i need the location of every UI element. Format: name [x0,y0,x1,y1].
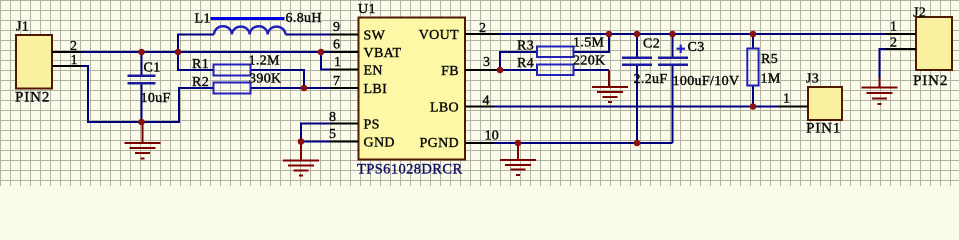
svg-text:4: 4 [483,94,490,109]
wire J1 pin1 down-around to R2 left lead [52,66,214,122]
junction node at GND/PS [298,138,305,145]
C3 plus sign [677,45,686,53]
ground G4 on PGND line [500,143,536,175]
wire C1 top lead [141,52,143,75]
capacitor C1 [128,76,156,84]
svg-text:1.5M: 1.5M [573,36,605,51]
wire R4 right lead [574,69,610,71]
op-amp U1 body [359,18,466,160]
svg-text:R2: R2 [192,75,209,90]
junction node at R3/VOUT [606,31,613,38]
svg-text:2.2uF: 2.2uF [634,72,668,87]
resistor R4 [537,65,574,76]
junction node at C2/VOUT [634,31,641,38]
junction node at EN branch [318,49,325,56]
J3 pin stub [778,106,808,108]
U1 pin stubs left [330,35,358,142]
svg-text:PIN1: PIN1 [806,121,841,137]
svg-text:10uF: 10uF [141,91,171,106]
svg-text:PIN2: PIN2 [15,90,50,106]
wire VBAT rail from J1 pin2 to U1 [52,51,358,53]
svg-text:LBI: LBI [364,82,388,97]
svg-text:VBAT: VBAT [364,46,402,61]
wire R1 left lead [178,52,214,70]
resistor R1 [214,65,251,76]
junction node at FB/R3 [497,67,504,74]
wire FB line to R4 [465,69,537,71]
inductor L1 value bar [211,17,285,20]
svg-text:8: 8 [329,110,336,125]
svg-text:J1: J1 [16,20,29,35]
connector J1 [16,35,52,89]
wire R5 top lead [752,34,754,49]
wire SW pin to L1 right lead [286,34,359,36]
wire LBI line from R2 to U1 [251,87,359,89]
junction node at C2/PGND [634,140,641,147]
wire GND pin [301,141,358,143]
wire C2 bottom lead down to PGND line [636,65,638,143]
svg-text:PS: PS [364,118,380,133]
svg-text:EN: EN [364,64,383,79]
ground G1 below C1 [125,122,161,159]
svg-text:PGND: PGND [419,136,459,151]
svg-text:10: 10 [485,129,499,144]
svg-text:GND: GND [364,136,395,151]
resistor R3 [537,47,574,58]
ground G2 below U1 GND pin [283,142,319,176]
wire J2 pin2 to ground [880,49,917,80]
ground G3 below R4 [592,70,628,102]
svg-text:1M: 1M [761,72,781,87]
wire R5 bottom lead [752,86,754,107]
junction node at C1 top [138,49,145,56]
junction node at L1/R1 branch [175,49,182,56]
junction node at R5/VOUT [750,31,757,38]
svg-text:LBO: LBO [430,101,459,116]
connector J3 [808,87,842,120]
svg-text:1: 1 [890,20,897,35]
wire C1 bottom lead [141,83,143,122]
junction node at C1 bottom [138,119,145,126]
wire PS elbow [301,124,358,142]
wire VOUT rail from U1 to J2 pin1 [465,33,916,35]
wire EN branch from VBAT rail [321,52,358,70]
J2 pin stubs [886,34,916,49]
junction node at R1/LBI [301,85,308,92]
capacitor C2 [622,58,652,65]
svg-text:SW: SW [364,29,386,44]
svg-text:FB: FB [441,64,459,79]
svg-text:U1: U1 [358,2,376,17]
svg-text:L1: L1 [195,12,211,27]
svg-text:TPS61028DRCR: TPS61028DRCR [357,162,463,178]
svg-text:9: 9 [333,20,340,35]
ground G5 below J2 pin2 [862,78,898,104]
svg-text:2: 2 [70,39,77,54]
junction node at G4/PGND [515,140,522,147]
connector J2 [916,17,952,70]
svg-text:J3: J3 [806,72,819,87]
svg-text:390K: 390K [249,72,282,87]
svg-text:2: 2 [479,21,486,36]
wire C3 bottom lead down to PGND line [672,65,674,143]
svg-text:R1: R1 [192,57,209,72]
svg-text:6: 6 [333,38,340,53]
U1 pin stubs right [465,34,500,143]
svg-text:1: 1 [71,53,78,68]
junction node at C3/VOUT [669,31,676,38]
svg-text:R5: R5 [761,52,778,67]
junction node at R5/LBO [750,103,757,110]
svg-text:R3: R3 [517,39,534,54]
wire LBO line from U1 to J3 pin1 [465,106,808,108]
svg-text:6.8uH: 6.8uH [286,11,322,26]
svg-text:1: 1 [783,92,790,107]
svg-text:1.2M: 1.2M [249,54,281,69]
svg-text:1: 1 [334,55,341,70]
sheet background [0,0,959,186]
resistor R5 [747,49,758,86]
wire R3 left branch [500,52,537,70]
svg-text:C1: C1 [144,61,161,76]
svg-text:R4: R4 [517,56,534,71]
inductor L1 coil [214,26,286,34]
svg-text:PIN2: PIN2 [913,73,948,89]
svg-text:7: 7 [333,74,340,89]
svg-text:100uF/10V: 100uF/10V [673,74,740,89]
resistor R2 [214,83,251,94]
svg-text:5: 5 [329,127,336,142]
svg-text:2: 2 [890,36,897,51]
capacitor C3 [658,58,688,65]
wire L1 branch up from VBAT rail [178,35,214,53]
wire R1 right lead down to LBI line [251,70,305,88]
wire PGND line [465,142,673,144]
svg-text:220K: 220K [573,54,606,69]
wire C2 top lead [636,34,638,57]
wire C3 top lead [672,34,674,57]
wire R3 right lead up to VOUT rail [574,34,610,52]
svg-text:C3: C3 [688,40,705,55]
svg-text:J2: J2 [913,6,926,21]
J1 pin stubs [52,52,82,66]
svg-text:VOUT: VOUT [419,28,459,43]
svg-text:3: 3 [483,55,490,70]
svg-text:C2: C2 [643,37,660,52]
